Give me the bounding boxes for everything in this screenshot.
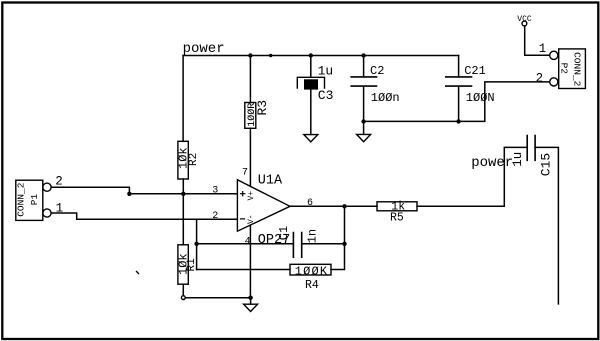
wire C21 bottom stem (458, 86, 460, 121)
svg-text:C15: C15 (539, 153, 554, 176)
svg-text:1ØØn: 1ØØn (371, 91, 400, 105)
wire C2 bottom stem to ground (363, 86, 365, 134)
svg-text:P2: P2 (558, 63, 569, 75)
ground symbol below C3 (304, 135, 318, 142)
svg-text:R2: R2 (188, 153, 200, 166)
R1 bottom open node circle (181, 296, 185, 300)
wire bottom gnd-net rail to P2 pin2 (364, 82, 550, 122)
wire P1 pin2 to op-amp pin3 (52, 187, 238, 194)
wire op-amp output to R5 (290, 205, 377, 207)
wire divider vertical R2 to R1 (182, 194, 184, 245)
wire R2 bottom stem (182, 179, 184, 194)
wire C1 feedback right segment (302, 243, 345, 245)
wire C1 feedback left segment (197, 243, 294, 245)
op-amp U1A triangle (237, 180, 290, 231)
resistor R5 box (377, 202, 417, 211)
svg-text:CONN_2: CONN_2 (16, 182, 27, 217)
svg-text:1n: 1n (306, 229, 320, 243)
junction dot P1 pin2 wire bend (127, 192, 131, 196)
junction dot C3 at power rail (309, 53, 313, 57)
op-amp plus input mark (240, 191, 245, 196)
junction dot small on power rail (269, 54, 272, 57)
svg-text:1u: 1u (511, 152, 525, 167)
wire op-amp pin4 vertical (249, 225, 251, 298)
svg-text:6: 6 (307, 198, 313, 209)
wire C3 top stem (310, 56, 312, 78)
wire C21 top stem (458, 56, 460, 77)
wire power rail left drop to R2 (182, 56, 184, 142)
wire ground stem below pin4 (250, 298, 252, 305)
svg-text:power: power (471, 155, 513, 171)
wire power rail (183, 55, 459, 57)
svg-text:CONN_2: CONN_2 (571, 52, 582, 87)
stray mark (136, 271, 139, 274)
resistor R4 box (290, 264, 331, 275)
capacitor C21 plates (445, 77, 472, 86)
svg-text:C2: C2 (370, 64, 384, 78)
junction dot divider tap at pin3 net (181, 192, 185, 196)
svg-text:2: 2 (212, 211, 218, 222)
svg-text:1ØØK: 1ØØK (295, 264, 329, 278)
junction dot C21 bottom rail (456, 119, 460, 123)
svg-text:V+: V+ (247, 191, 256, 201)
wire R3 top stem (249, 56, 251, 103)
svg-text:C21: C21 (464, 64, 486, 78)
resistor R3 box (245, 103, 256, 129)
wire feedback vertical at inverting input (196, 219, 198, 269)
svg-text:VCC: VCC (517, 15, 532, 24)
svg-text:U1A: U1A (258, 174, 283, 189)
svg-text:P1: P1 (29, 193, 40, 205)
wire P1 pin1 to op-amp pin2 (52, 213, 238, 219)
junction dot R3 at power rail (248, 53, 252, 57)
ground symbol below op-amp (244, 304, 258, 311)
svg-text:7: 7 (242, 167, 248, 178)
svg-text:4: 4 (245, 236, 251, 247)
capacitor C15 plates (527, 135, 535, 161)
wire R3 bottom stem to op-amp pin7 (249, 128, 251, 185)
svg-text:R5: R5 (390, 212, 404, 225)
junction dot C2 at power rail (361, 53, 365, 57)
capacitor C2 plates (350, 77, 377, 86)
svg-text:1: 1 (539, 42, 547, 56)
junction dot feedback right (342, 242, 346, 246)
capacitor C1 plates (293, 232, 301, 258)
resistor R2 box (178, 141, 188, 179)
connector P2 pin circles (550, 51, 558, 59)
junction dot feedback left (194, 242, 198, 246)
junction dot C2 bottom rail (361, 119, 365, 123)
connector P1 pin circles (43, 183, 51, 191)
wire R5 to C15 riser (417, 147, 527, 206)
connector P1 box (16, 180, 43, 220)
svg-text:OP27: OP27 (258, 233, 290, 248)
wire R1 bottom stem (182, 284, 184, 296)
VCC supply circle (522, 21, 527, 26)
wire R4 feedback left segment (197, 269, 290, 271)
wire VCC to P2 pin1 (525, 26, 550, 55)
capacitor C3 top bracket plate (297, 77, 324, 89)
svg-text:R4: R4 (305, 279, 319, 292)
svg-text:power: power (183, 41, 225, 57)
junction dot ground node below op-amp (248, 296, 252, 300)
svg-text:V-: V- (247, 214, 256, 224)
junction dot output node (342, 204, 346, 208)
wire C3 bottom stem to ground (310, 90, 312, 135)
svg-text:C3: C3 (318, 88, 334, 103)
wire ground run from R1 (185, 297, 250, 299)
capacitor C3 filled plate (304, 79, 318, 89)
svg-text:2: 2 (55, 175, 63, 189)
svg-text:R1: R1 (186, 258, 198, 272)
ground symbol below C2 (357, 134, 371, 141)
op-amp minus input mark (240, 218, 245, 220)
wire R4 feedback right segment up to output (331, 206, 345, 269)
svg-text:3: 3 (212, 186, 218, 197)
svg-text:1: 1 (56, 202, 64, 216)
wire C15 right to dangling end (535, 147, 558, 304)
svg-text:2: 2 (536, 71, 544, 85)
resistor R1 box (178, 245, 188, 284)
svg-text:R3: R3 (255, 100, 270, 116)
svg-text:1ØØN: 1ØØN (466, 91, 495, 105)
connector P2 box (559, 49, 586, 89)
wire C2 top stem (363, 56, 365, 77)
svg-text:1u: 1u (318, 64, 334, 79)
